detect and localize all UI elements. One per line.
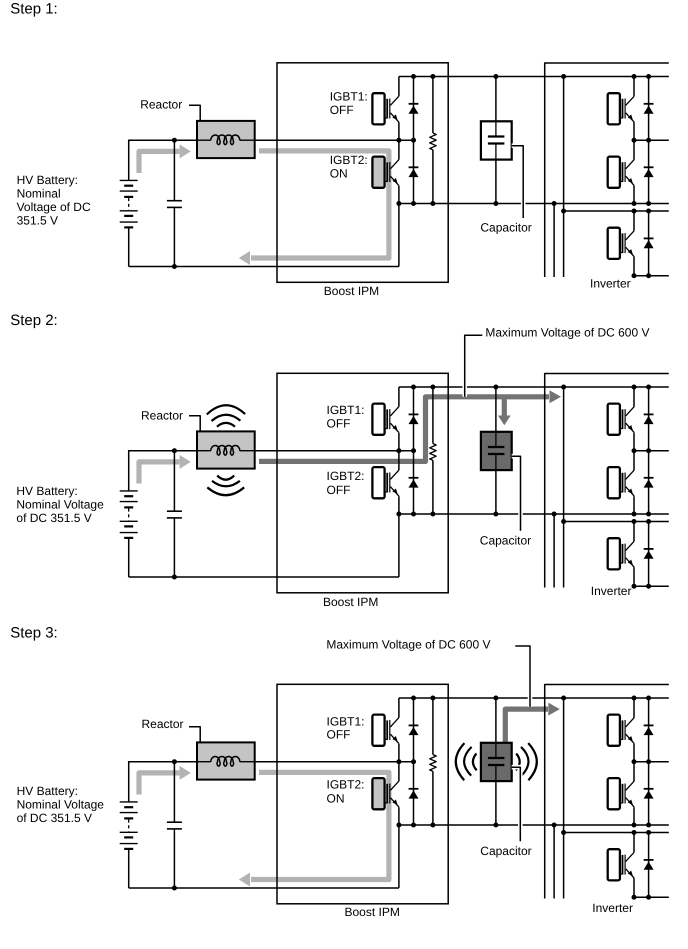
HV battery label — [16, 484, 104, 525]
wire: inverter diode branches — [648, 77, 650, 276]
svg-text:Capacitor: Capacitor — [480, 221, 531, 235]
svg-text:Boost IPM: Boost IPM — [323, 595, 378, 609]
energy release arcs above reactor — [207, 405, 245, 426]
reactor label pointer — [189, 727, 200, 743]
reactor L1 body — [197, 742, 255, 779]
diode D2 (boost lower) — [409, 478, 419, 488]
HV battery label — [17, 784, 105, 825]
inverter IGBT Q3 — [608, 715, 635, 746]
capacitor label — [480, 844, 531, 858]
inverter diode D5 — [644, 238, 654, 248]
wire: capacitor top lead — [495, 387, 497, 447]
Boost IPM enclosure — [277, 373, 448, 593]
svg-text:Inverter: Inverter — [590, 277, 631, 291]
junction dots: boost top bus — [411, 385, 416, 390]
filter capacitor C1 — [167, 762, 182, 888]
svg-text:IGBT2:: IGBT2: — [327, 778, 365, 792]
wire: inverter leg verticals — [633, 77, 635, 276]
junction dots: boost top bus — [411, 696, 416, 701]
junction: filter capacitor bottom — [172, 264, 177, 269]
junction dots: inverter left columns — [561, 74, 566, 79]
junction: capacitor on DC+ bus — [493, 696, 498, 701]
DC link capacitor C2 — [481, 121, 512, 159]
inverter phase line 2 — [553, 204, 555, 278]
DC link capacitor C2 — [481, 743, 512, 781]
wire: inverter leg verticals — [633, 387, 635, 586]
svg-text:Capacitor: Capacitor — [480, 844, 531, 858]
inverter mid bus (phase output row 1) — [634, 761, 669, 763]
resistor R1 (bleeder) — [430, 387, 437, 514]
diode D2 (boost lower) — [409, 789, 419, 799]
svg-text:HV Battery:: HV Battery: — [16, 484, 77, 498]
wire: IGBT leg lower — [398, 186, 400, 204]
reactor winding — [198, 135, 255, 145]
IGBT Q2 (boost lower) — [372, 467, 399, 498]
svg-text:Step 3:: Step 3: — [10, 625, 58, 642]
wire: boost diode branch — [413, 698, 415, 825]
diode D1 (boost upper) — [409, 725, 419, 735]
svg-text:Step 1:: Step 1: — [10, 1, 58, 18]
junction dots: inverter left columns — [561, 696, 566, 701]
inverter label — [591, 584, 632, 598]
reactor L1 body — [197, 431, 255, 468]
inverter diode D4 — [644, 478, 654, 488]
wire: capacitor top lead — [495, 77, 497, 137]
svg-text:OFF: OFF — [327, 483, 351, 497]
inverter IGBT Q3 — [608, 404, 635, 435]
svg-text:HV Battery:: HV Battery: — [17, 173, 78, 187]
inverter diode D5 — [644, 549, 654, 559]
inverter label — [590, 277, 631, 291]
wire: boost leg down to battery return — [398, 514, 400, 577]
DC+ bus (top) — [399, 697, 669, 699]
inverter row 3 bottom bus — [634, 275, 669, 277]
junction dots: boost mid node — [396, 759, 401, 764]
junction dots: inverter buses — [632, 385, 637, 390]
IGBT Q2 (boost lower) — [372, 157, 399, 188]
resistor R1 (bleeder) — [430, 698, 437, 825]
DC+ bus (top) — [399, 76, 669, 78]
Boost IPM label — [323, 595, 378, 609]
svg-text:Reactor: Reactor — [140, 97, 182, 111]
wire: boost diode branch — [413, 387, 415, 514]
svg-text:IGBT2:: IGBT2: — [327, 469, 365, 483]
IGBT1 label — [327, 714, 365, 741]
svg-text:IGBT2:: IGBT2: — [330, 153, 368, 167]
IGBT1 label — [330, 90, 368, 117]
svg-text:ON: ON — [330, 166, 348, 180]
svg-text:OFF: OFF — [327, 727, 351, 741]
wire: bottom return (battery negative) — [129, 887, 399, 889]
Boost IPM enclosure — [277, 63, 448, 282]
svg-text:Nominal Voltage: Nominal Voltage — [17, 798, 105, 812]
IGBT Q1 (boost upper) — [372, 93, 399, 124]
inverter lower bus (row 3 top) — [564, 210, 669, 212]
reactor winding — [198, 445, 255, 455]
Boost IPM label — [324, 284, 379, 298]
reactor winding — [198, 756, 255, 766]
resistor R1 (bleeder) — [430, 77, 437, 204]
maximum voltage label — [485, 326, 649, 340]
diode D1 (boost upper) — [409, 414, 419, 424]
svg-text:IGBT1:: IGBT1: — [330, 90, 368, 104]
HV battery symbol — [120, 180, 138, 227]
IGBT Q1 (boost upper) — [372, 715, 399, 746]
wire: battery positive to reactor (top left) — [129, 450, 197, 452]
junction dots: boost bottom bus — [396, 823, 401, 828]
inverter mid bus (phase output row 1) — [634, 450, 669, 452]
junction: capacitor on DC+ bus — [493, 385, 498, 390]
junction dots: inverter buses — [632, 696, 637, 701]
capacitor label — [480, 221, 531, 235]
wire: inverter leg verticals — [633, 698, 635, 897]
capacitor label pointer — [512, 146, 524, 218]
HV battery symbol — [120, 491, 138, 538]
inverter phase line 3 — [563, 77, 565, 278]
svg-text:Inverter: Inverter — [591, 584, 632, 598]
junction: filter capacitor top — [172, 138, 177, 143]
current path arrow: battery to reactor (light gray) — [139, 455, 191, 484]
Boost IPM enclosure — [277, 684, 448, 904]
svg-text:Maximum Voltage of DC 600 V: Maximum Voltage of DC 600 V — [485, 326, 649, 340]
wire: inverter diode branches — [648, 698, 650, 897]
discharge arcs right of capacitor — [516, 743, 537, 780]
IGBT2 label — [327, 778, 365, 806]
svg-text:OFF: OFF — [330, 103, 354, 117]
reactor L1 body — [197, 121, 255, 158]
svg-text:IGBT1:: IGBT1: — [327, 714, 365, 728]
HV battery label — [17, 173, 91, 227]
svg-text:Capacitor: Capacitor — [480, 534, 531, 548]
current path: reactor up to DC bus toward inverter (dark gray) — [259, 390, 561, 461]
wire: IGBT leg between — [398, 122, 400, 159]
wire: boost diode branch — [413, 77, 415, 204]
inverter label — [592, 901, 633, 915]
svg-text:351.5 V: 351.5 V — [17, 213, 58, 227]
inverter phase line 3 — [563, 698, 565, 899]
wire: battery top lead — [128, 140, 130, 181]
svg-text:IGBT1:: IGBT1: — [327, 403, 365, 417]
svg-text:Nominal Voltage: Nominal Voltage — [16, 498, 104, 512]
junction: capacitor on DC+ bus — [493, 74, 498, 79]
wire: bottom return (battery negative) — [129, 576, 399, 578]
inverter lower bus (row 3 top) — [564, 521, 669, 523]
wire: capacitor bottom lead — [495, 470, 497, 514]
wire: bottom return (battery negative) — [129, 266, 399, 268]
capacitor label pointer — [512, 767, 521, 841]
wire: IGBT leg lower — [398, 496, 400, 514]
maximum voltage pointer — [515, 646, 530, 707]
svg-text:OFF: OFF — [327, 416, 351, 430]
wire: reactor output to boost mid junction — [255, 139, 414, 141]
current path arrow: battery to reactor (light gray) — [139, 766, 191, 795]
HV battery symbol — [120, 802, 138, 849]
wire: IGBT leg between — [398, 744, 400, 781]
svg-text:of DC 351.5 V: of DC 351.5 V — [16, 511, 91, 525]
inverter diode D4 — [644, 167, 654, 177]
svg-text:HV Battery:: HV Battery: — [17, 784, 78, 798]
battery dashed middle link — [128, 819, 130, 831]
inverter phase line 3 — [563, 387, 565, 588]
inverter lower bus (row 3 top) — [564, 832, 669, 834]
wire: IGBT leg vertical upper — [398, 77, 400, 97]
junction dots: inverter buses — [632, 74, 637, 79]
junction: capacitor on DC- bus — [493, 512, 498, 517]
junction dots: boost top bus — [411, 74, 416, 79]
inverter enclosure — [545, 63, 669, 277]
junction dots: boost bottom bus — [396, 201, 401, 206]
svg-text:Boost IPM: Boost IPM — [345, 905, 400, 919]
inverter IGBT Q5 — [608, 228, 635, 259]
svg-text:Reactor: Reactor — [141, 409, 183, 423]
wire: capacitor top lead — [495, 698, 497, 758]
junction: filter capacitor bottom — [172, 886, 177, 891]
filter capacitor C1 — [167, 140, 182, 266]
IGBT2 label — [327, 469, 365, 497]
wire: reactor output to boost mid junction — [255, 450, 414, 452]
junction: filter capacitor top — [172, 759, 177, 764]
wire: capacitor bottom lead — [495, 160, 497, 204]
svg-text:Step 2:: Step 2: — [10, 312, 58, 329]
inverter mid bus (phase output row 1) — [634, 139, 669, 141]
wire: IGBT leg vertical upper — [398, 698, 400, 718]
inverter diode D4 — [644, 789, 654, 799]
Boost IPM label — [345, 905, 400, 919]
inverter IGBT Q5 — [608, 538, 635, 569]
DC+ bus (top) — [399, 386, 669, 388]
junction: capacitor on DC- bus — [493, 201, 498, 206]
svg-text:Boost IPM: Boost IPM — [324, 284, 379, 298]
svg-text:Maximum Voltage of DC 600 V: Maximum Voltage of DC 600 V — [326, 638, 490, 652]
IGBT1 label — [327, 403, 365, 430]
wire: battery positive to reactor (top left) — [129, 139, 197, 141]
wire: battery positive to reactor (top left) — [129, 761, 197, 763]
current path arrow: battery to reactor (light gray) — [139, 144, 191, 173]
IGBT Q1 (boost upper) — [372, 404, 399, 435]
wire: inverter diode branches — [648, 387, 650, 586]
wire: IGBT leg between — [398, 433, 400, 470]
battery dashed middle link — [128, 508, 130, 520]
current path arrow: charging into capacitor (dark gray) — [498, 399, 511, 426]
junction: filter capacitor top — [172, 448, 177, 453]
discharge arcs left of capacitor — [456, 743, 477, 780]
wire: capacitor bottom lead — [495, 781, 497, 825]
junction dots: boost mid node — [396, 138, 401, 143]
inverter diode D3 — [644, 414, 654, 424]
capacitor label pointer — [512, 456, 521, 531]
inverter phase line 2 — [553, 514, 555, 588]
inverter diode D3 — [644, 104, 654, 114]
junction: filter capacitor bottom — [172, 575, 177, 580]
inverter enclosure — [545, 374, 669, 588]
junction dots: inverter left columns — [561, 385, 566, 390]
svg-text:Inverter: Inverter — [592, 901, 633, 915]
current path: reactor through IGBT2 and return loop (light gray) — [239, 772, 389, 886]
svg-text:Reactor: Reactor — [142, 717, 184, 731]
inverter IGBT Q4 — [608, 157, 635, 188]
reactor label pointer — [189, 105, 200, 121]
svg-text:ON: ON — [327, 791, 345, 805]
inverter row 3 bottom bus — [634, 585, 669, 587]
IGBT2 label — [330, 153, 368, 180]
maximum voltage pointer — [465, 335, 483, 397]
svg-text:Nominal: Nominal — [17, 187, 61, 201]
inverter enclosure — [545, 685, 669, 899]
inverter row 3 bottom bus — [634, 896, 669, 898]
junction: capacitor on DC- bus — [493, 823, 498, 828]
inverter IGBT Q4 — [608, 778, 635, 809]
junction dots: boost mid node — [396, 448, 401, 453]
svg-text:Voltage of DC: Voltage of DC — [17, 200, 91, 214]
DC- bus (bottom) — [399, 203, 669, 205]
DC link capacitor C2 — [481, 432, 512, 470]
diode D1 (boost upper) — [409, 104, 419, 114]
current path: reactor through IGBT2 and return loop (light gray) — [239, 151, 389, 265]
diode D2 (boost lower) — [409, 167, 419, 177]
battery dashed middle link — [128, 198, 130, 210]
wire: battery bottom lead — [128, 849, 130, 888]
inverter IGBT Q4 — [608, 467, 635, 498]
junction dots: boost bottom bus — [396, 512, 401, 517]
IGBT Q2 (boost lower) — [372, 778, 399, 809]
current path: capacitor discharge up to DC bus toward inverter (dark gray) — [505, 703, 560, 742]
DC- bus (bottom) — [399, 513, 669, 515]
reactor label pointer — [189, 416, 200, 432]
svg-text:of DC 351.5 V: of DC 351.5 V — [17, 811, 92, 825]
wire: battery bottom lead — [128, 227, 130, 266]
inverter diode D3 — [644, 725, 654, 735]
wire: battery top lead — [128, 761, 130, 802]
inverter IGBT Q3 — [608, 93, 635, 124]
inverter phase line 2 — [553, 825, 555, 899]
wire: battery bottom lead — [128, 538, 130, 577]
reactor label — [140, 97, 182, 111]
capacitor label — [480, 534, 531, 548]
wire: boost leg down to battery return — [398, 204, 400, 267]
DC- bus (bottom) — [399, 824, 669, 826]
filter capacitor C1 — [167, 451, 182, 577]
inverter diode D5 — [644, 860, 654, 870]
wire: IGBT leg vertical upper — [398, 387, 400, 407]
wire: boost leg down to battery return — [398, 825, 400, 888]
wire: reactor output to boost mid junction — [255, 761, 414, 763]
energy release arcs below reactor — [207, 476, 244, 496]
reactor label — [142, 717, 184, 731]
inverter IGBT Q5 — [608, 849, 635, 880]
reactor label — [141, 409, 183, 423]
wire: IGBT leg lower — [398, 807, 400, 825]
maximum voltage label — [326, 638, 490, 652]
wire: battery top lead — [128, 450, 130, 491]
